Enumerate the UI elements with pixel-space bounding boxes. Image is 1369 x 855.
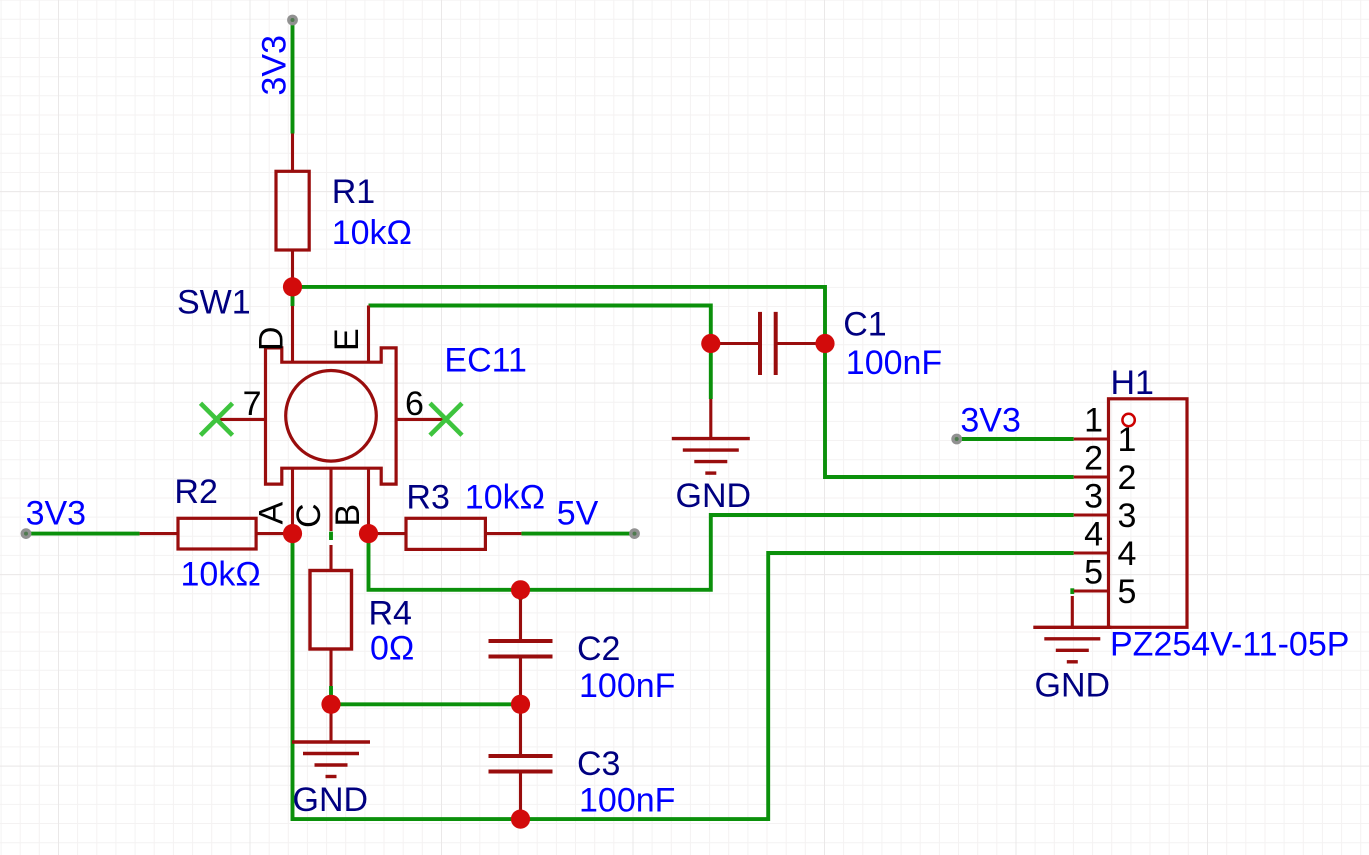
rotary encoder SW1 outline [266,348,397,484]
svg-text:SW1: SW1 [177,284,251,322]
SW1 pin A [291,468,294,533]
svg-text:3: 3 [1118,497,1137,535]
junction B / R3 [359,524,378,543]
svg-text:10kΩ: 10kΩ [332,214,412,252]
wire R3 to 5V port [521,532,634,536]
wire net SW1-B to C2 top / H1 pin 3 [369,515,1074,590]
SW1 pin C [329,468,332,531]
svg-text:100nF: 100nF [579,667,675,705]
junction R1 bottom / D [283,277,302,296]
svg-text:6: 6 [405,385,424,423]
no-connect X on pin 7 [201,403,233,435]
wire stub junction to D pin [291,287,295,306]
svg-text:E: E [328,328,366,351]
junction R4 bottom [321,695,340,714]
svg-text:3V3: 3V3 [256,35,294,96]
connector H1 body [1109,399,1188,628]
svg-text:B: B [329,504,367,527]
svg-text:C2: C2 [577,630,620,668]
svg-text:4: 4 [1084,516,1103,554]
svg-text:7: 7 [243,385,262,423]
svg-text:1: 1 [1118,421,1137,459]
wire stub R4 bottom [329,686,333,704]
junction C1 right [815,334,834,353]
SW1 pin 6 [396,418,444,421]
H1 pin 3 stub [1074,513,1109,516]
power port 5V [629,528,640,539]
svg-text:R2: R2 [174,473,217,511]
svg-text:GND: GND [676,477,752,515]
svg-text:C3: C3 [577,745,620,783]
H1 pin-1 marker circle [1122,414,1134,426]
svg-text:GND: GND [293,781,369,819]
svg-text:A: A [252,502,290,525]
svg-text:PZ254V-11-05P: PZ254V-11-05P [1110,626,1349,664]
capacitor C2 [519,598,522,641]
junction C2 bottom / C3 top [511,695,530,714]
svg-text:C: C [290,503,328,528]
wire stub H1 pin5 to GND [1070,588,1074,594]
capacitor C1 [711,342,760,345]
no-connect X on pin 6 [430,403,462,435]
wire net SW1-A to bottom rail to H1 pin 4 [293,534,1074,820]
svg-text:2: 2 [1084,440,1103,478]
svg-text:D: D [252,326,290,351]
resistor R4 [329,545,332,571]
wire net SW1-E to C1 left / GND [369,306,711,400]
svg-text:GND: GND [1035,667,1111,705]
H1 pin 1 stub [1074,437,1109,440]
SW1 pin 7 [217,418,266,421]
junction A / R2 [283,524,302,543]
svg-text:3V3: 3V3 [960,402,1021,440]
resistor R1 [291,134,294,172]
ground GND (R4 net) [329,704,332,742]
svg-text:H1: H1 [1111,364,1154,402]
svg-text:100nF: 100nF [579,782,675,820]
svg-text:5: 5 [1118,573,1137,611]
svg-text:5: 5 [1084,554,1103,592]
resistor R2 [140,532,178,535]
svg-text:1: 1 [1084,402,1103,440]
H1 pin 2 stub [1074,475,1109,478]
wire 3V3 top vertical to R1 [291,20,295,134]
power port 3V3 (top) [287,15,298,26]
H1 pin 4 stub [1074,551,1109,554]
resistor R3 [369,532,407,535]
svg-text:R4: R4 [369,595,412,633]
H1 pin 5 stub [1074,589,1109,592]
svg-text:2: 2 [1118,459,1137,497]
svg-text:R1: R1 [332,173,375,211]
junction C1 left [701,334,720,353]
capacitor C3 [519,704,522,756]
ground GND (H1 pin5) [1071,596,1074,627]
power port 3V3 (left) [21,528,32,539]
svg-text:3V3: 3V3 [26,495,87,533]
wire stub SW1 pin C to R4 [329,532,333,540]
wire 3V3 left to R2 [26,532,140,536]
SW1 pin E [367,306,370,363]
wire stub C2 bottom junction [519,590,523,600]
svg-text:EC11: EC11 [444,342,527,380]
SW1 pin B [367,468,370,533]
svg-text:3: 3 [1084,478,1103,516]
svg-text:0Ω: 0Ω [370,630,414,668]
rotary encoder SW1 knob circle [286,371,377,462]
junction C2 top [511,580,530,599]
wire R4 bottom junction to C2 bottom junction [331,702,521,706]
junction C3 bottom [511,810,530,829]
svg-text:C1: C1 [843,305,886,343]
svg-text:R3: R3 [406,478,449,516]
svg-text:4: 4 [1118,535,1137,573]
power port 3V3 (H1) [951,434,962,445]
svg-text:10kΩ: 10kΩ [181,555,261,593]
SW1 pin D [291,306,294,362]
svg-text:100nF: 100nF [846,344,942,382]
wire net SW1-D/R1 junction to H1 pin 2 (via C1 right) [293,287,1074,477]
ground GND (C1/E net) [709,399,712,439]
svg-text:5V: 5V [557,495,599,533]
wire 3V3 to H1 pin 1 [957,437,1074,441]
svg-text:10kΩ: 10kΩ [465,479,545,517]
